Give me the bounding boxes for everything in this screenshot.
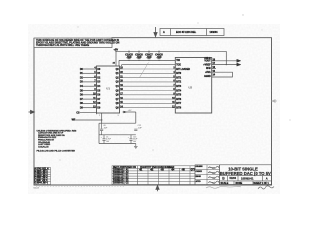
capacitor C4 <box>157 51 160 60</box>
cap cluster rail bottom <box>99 143 136 145</box>
next assembly table text <box>113 166 136 185</box>
wire input D5 <box>83 90 97 92</box>
wire TDI net <box>119 59 175 61</box>
wire input D3 <box>83 81 97 83</box>
junction dots cap bottoms <box>128 60 159 61</box>
junction dot rail/+VREF <box>226 64 227 65</box>
leader line diagonal <box>140 63 149 78</box>
scale / sheet row <box>221 182 270 185</box>
U2 right pin numbers <box>213 59 216 76</box>
wire bus bit7 <box>120 98 176 100</box>
wire TCK net <box>122 64 176 66</box>
approval block text <box>196 165 203 183</box>
capacitor C2 <box>137 51 140 60</box>
wire WR net <box>76 119 102 121</box>
+VREF output arrow <box>237 63 241 66</box>
U2 left pin name labels <box>176 60 190 109</box>
wire RFB stub <box>212 67 216 69</box>
IC U1 body <box>97 66 120 113</box>
next assembly table <box>112 166 137 185</box>
paper noise overlay <box>28 24 280 194</box>
wire input D4 <box>83 85 97 87</box>
wire input D9 <box>83 107 97 109</box>
capacitor C3 <box>147 51 150 60</box>
wire bus bit4 <box>120 85 176 87</box>
capacitor C6 <box>100 123 103 135</box>
centering mark arrow left <box>29 110 35 113</box>
capacitor C12 <box>134 129 137 130</box>
revision history table <box>34 168 51 185</box>
VOUT output arrow <box>237 59 241 62</box>
wire bus bit6 <box>120 94 176 96</box>
wire bus bit9 <box>120 107 176 109</box>
wire input D2 <box>83 77 97 79</box>
centering mark arrow right (faint) <box>272 100 277 103</box>
IC U2 body <box>175 58 211 114</box>
title block <box>220 165 272 185</box>
revision history table text <box>34 168 49 185</box>
wire bus bit1 <box>120 72 176 74</box>
wire U1 VCC pin to rail <box>115 51 117 66</box>
capacitor C5 (polarized) <box>102 135 105 144</box>
junction dots on rail <box>115 51 159 52</box>
wire input D8 <box>83 102 97 104</box>
wire input D6 <box>83 94 97 96</box>
wire stubs from U1 top to TDI/TCK <box>119 60 122 66</box>
note box <box>34 38 112 48</box>
wire branch drop to cap cluster <box>135 112 137 123</box>
cap cluster rail mid <box>99 134 136 136</box>
wire bus bit2 <box>120 77 176 79</box>
approval signatures squiggles <box>208 166 219 183</box>
wire input CS <box>80 113 97 115</box>
capacitor C13 (polarized) <box>129 135 132 144</box>
wire RFB feedback loop <box>212 72 233 77</box>
drawing border frame <box>34 38 272 185</box>
wire rail drop to U2 right pin <box>225 51 227 64</box>
centering mark arrow bottom <box>156 185 159 191</box>
wire +5V branch from U1 <box>123 111 136 113</box>
centering mark arrow top <box>154 27 157 37</box>
cap cluster left side wire <box>98 123 100 143</box>
quantity per dash number table <box>137 166 195 185</box>
revision block <box>160 29 224 36</box>
approval signature block <box>195 165 220 185</box>
cap cluster rail top <box>99 122 136 124</box>
note box text <box>36 39 119 47</box>
wire bus bit5 <box>120 90 176 92</box>
wire input D1 <box>83 72 97 74</box>
signature below border right <box>258 186 274 189</box>
revision block text <box>163 31 218 34</box>
scan specks <box>59 14 290 160</box>
junction dot WR <box>101 119 102 120</box>
pencil note below border <box>206 186 241 188</box>
+5V branch arrow <box>124 111 127 114</box>
capacitor C1 <box>127 51 130 60</box>
ground symbol <box>134 144 138 149</box>
wire bus bit3 <box>120 81 176 83</box>
wire U1 bottom pin drop <box>101 113 103 123</box>
notes text block <box>37 130 77 152</box>
wire bus bit0 <box>120 68 176 70</box>
wire bus bit8 <box>120 102 176 104</box>
+5V rail wire <box>116 50 226 52</box>
quantity table header text <box>139 166 196 172</box>
U2 right pin name labels <box>203 61 211 78</box>
wire +VREF output <box>212 64 238 66</box>
wire input D7 <box>83 98 97 100</box>
wire VOUT output <box>212 60 238 62</box>
wire input D0 <box>83 68 97 70</box>
scan ghost line <box>36 185 125 187</box>
